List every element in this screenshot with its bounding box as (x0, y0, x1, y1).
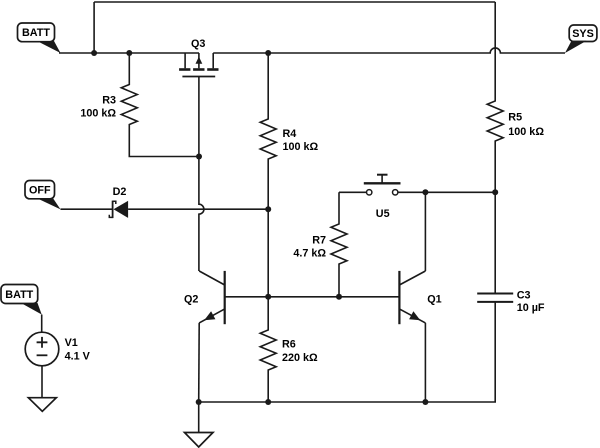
svg-text:U5: U5 (376, 208, 390, 220)
node junction dot R6 bottom rail (265, 399, 271, 405)
svg-text:BATT: BATT (5, 289, 33, 301)
svg-text:R7: R7 (312, 235, 326, 247)
wire OFF/D2 horizontal (61, 208, 113, 210)
wire Q3 gate line, hop over D2 wire (199, 157, 204, 272)
svg-text:D2: D2 (113, 186, 127, 198)
resistor R6 (260, 297, 276, 402)
svg-text:4.1 V: 4.1 V (65, 351, 91, 363)
ground main (185, 402, 214, 447)
resistor R5 (487, 2, 503, 192)
wire Q3 source rail right segment with hop over R5 line (213, 48, 565, 53)
svg-text:100 kΩ: 100 kΩ (283, 141, 319, 153)
svg-text:10 µF: 10 µF (517, 302, 545, 314)
node junction dot R5 bottom / C3 top (492, 189, 498, 195)
node junction dot D2 wire to R4 line (265, 206, 271, 212)
wire U5 right to R5/C3 node (398, 191, 495, 193)
svg-text:OFF: OFF (29, 185, 51, 197)
svg-text:SYS: SYS (572, 28, 594, 40)
wire Q1 collector up (424, 192, 426, 271)
svg-text:C3: C3 (517, 289, 531, 301)
node junction dot base rail at R4/R6 (265, 294, 271, 300)
wire R7 top to U5 left (339, 191, 366, 193)
svg-text:R3: R3 (102, 94, 116, 106)
wire top rail BATT to R5 (94, 1, 495, 3)
svg-text:R4: R4 (283, 128, 297, 140)
net tag BATT bottom (1, 285, 42, 315)
svg-text:Q2: Q2 (184, 293, 198, 305)
svg-text:100 kΩ: 100 kΩ (80, 107, 116, 119)
net tag SYS (565, 25, 597, 53)
transistor Q1 NPN (399, 271, 425, 324)
voltage source V1 (25, 315, 59, 398)
capacitor C3 (477, 294, 513, 302)
wire R4 to base rail (267, 209, 269, 297)
net tag OFF (25, 181, 61, 210)
svg-text:R5: R5 (508, 111, 522, 123)
pushbutton U5 (364, 175, 401, 195)
wire Q1 emitter down (424, 323, 426, 402)
node junction dot Q1 emitter ground rail (422, 399, 428, 405)
wire C3 bottom to ground rail (199, 302, 496, 402)
svg-text:R6: R6 (282, 339, 296, 351)
node junction dot R3 bottom to Q3 gate (196, 154, 202, 160)
node junction dot Q2 emitter ground rail (196, 399, 202, 405)
wire vertical BATT rail to top rail (93, 2, 95, 53)
svg-text:V1: V1 (65, 337, 78, 349)
node junction dot R7 base rail (336, 294, 342, 300)
ground V1 (28, 398, 56, 412)
svg-text:4.7 kΩ: 4.7 kΩ (293, 248, 326, 260)
svg-text:220 kΩ: 220 kΩ (282, 352, 318, 364)
wire Q2 emitter down (198, 323, 201, 402)
transistor Q3 PMOS (179, 53, 218, 77)
resistor R7 (331, 192, 347, 296)
transistor Q2 NPN mirrored (199, 271, 225, 324)
net tag BATT top (18, 23, 61, 53)
wire R5/C3 node down to C3 (494, 192, 496, 293)
svg-text:100 kΩ: 100 kΩ (508, 126, 544, 138)
node junction dot R3 top (126, 50, 132, 56)
resistor R4 (260, 53, 276, 209)
node junction dot R4 top (265, 50, 271, 56)
svg-text:BATT: BATT (22, 27, 50, 39)
resistor R3 (121, 53, 199, 157)
node junction dot Q1 collector (422, 189, 428, 195)
diode D2 schottky (109, 201, 128, 219)
wire BATT rail left segment (59, 52, 199, 54)
svg-text:Q1: Q1 (427, 293, 441, 305)
wire Q3 gate line down (198, 77, 200, 157)
node junction dot BATT top rail (91, 50, 97, 56)
wire base rail Q2 to Q1 (225, 296, 400, 298)
svg-text:Q3: Q3 (191, 38, 205, 50)
